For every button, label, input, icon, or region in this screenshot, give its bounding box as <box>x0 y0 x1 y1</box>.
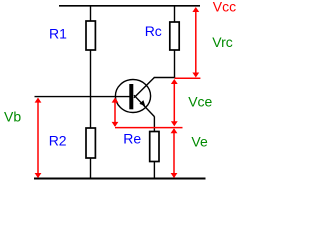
svg-text:Vrc: Vrc <box>212 34 232 50</box>
wire: collector horizontal <box>154 77 175 79</box>
arrow Ve (emitter line to ground) <box>171 128 178 178</box>
wire: ground rail <box>34 178 206 180</box>
wire: R2 bottom <box>90 158 92 179</box>
wire: emitter vertical <box>153 117 155 133</box>
svg-text:Vcc: Vcc <box>213 0 236 14</box>
wire: collector diagonal <box>134 78 154 98</box>
transistor Q1 emitter arrowhead <box>139 100 145 106</box>
svg-text:Re: Re <box>123 131 141 147</box>
wire: R1 bottom to base node <box>90 50 92 97</box>
svg-text:Rc: Rc <box>145 23 162 39</box>
transistor Q1 circle <box>115 80 150 113</box>
transistor Q1 base bar <box>129 84 133 109</box>
wire: R1 top stub <box>90 6 92 22</box>
svg-text:R2: R2 <box>49 133 67 149</box>
wire: base <box>35 96 130 98</box>
arrow Vrc (top rail to collector) <box>192 7 199 78</box>
arrow Vbe (base to emitter line) <box>112 98 119 127</box>
resistor R2 <box>86 128 95 158</box>
svg-text:R1: R1 <box>49 26 67 42</box>
resistor R1 <box>86 21 95 50</box>
svg-text:Vb: Vb <box>4 109 21 125</box>
wire: R2 top <box>90 97 92 129</box>
transistor Q1 emitter diagonal <box>134 95 154 116</box>
wire: Rc top stub <box>174 6 176 23</box>
svg-text:Vce: Vce <box>188 94 212 110</box>
arrow Vb (base to ground) <box>35 98 42 178</box>
resistor Rc <box>170 22 179 50</box>
svg-text:Ve: Ve <box>191 133 208 149</box>
wire: Vcc top rail <box>59 5 200 7</box>
red level line: collector <box>175 77 201 79</box>
red level line: emitter <box>115 127 183 129</box>
wire: Rc bottom to collector corner <box>174 50 176 78</box>
arrow Vce (collector to emitter line) <box>171 79 178 126</box>
resistor Re <box>150 132 159 162</box>
wire: Re bottom <box>153 162 155 179</box>
